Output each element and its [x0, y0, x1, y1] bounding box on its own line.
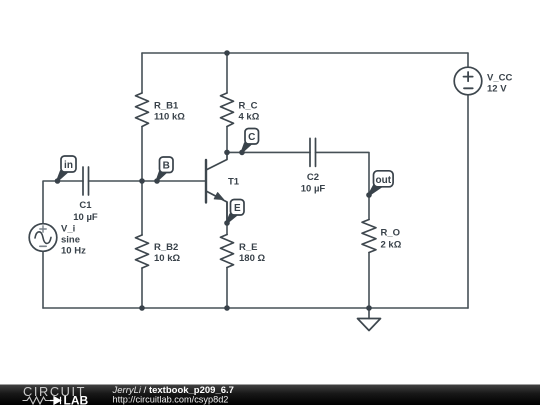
resistor R_B1 — [136, 93, 149, 127]
svg-text:R_B1: R_B1 — [154, 101, 179, 112]
source V_i — [29, 224, 57, 252]
transistor T1 — [206, 152, 227, 223]
resistor R_B2 — [136, 235, 149, 268]
svg-text:R_C: R_C — [239, 101, 258, 112]
svg-text:180 Ω: 180 Ω — [239, 253, 265, 264]
source V_CC — [454, 67, 482, 95]
node flag C — [241, 129, 259, 154]
svg-text:V_CC: V_CC — [487, 73, 512, 84]
svg-text:in: in — [64, 160, 73, 171]
wire R_B1 branch — [141, 53, 143, 181]
wire C2 to out corner — [316, 152, 370, 219]
capacitor C1 — [83, 167, 89, 195]
node flag in — [56, 156, 76, 182]
node flag B — [156, 157, 173, 182]
ground — [358, 308, 381, 331]
node flag out — [368, 171, 394, 197]
footer logo resistor squiggle — [23, 397, 51, 404]
svg-text:10 µF: 10 µF — [73, 212, 98, 223]
svg-text:V_i: V_i — [61, 224, 75, 235]
svg-text:10 Hz: 10 Hz — [61, 246, 86, 257]
svg-text:T1: T1 — [228, 177, 240, 188]
resistor R_C — [221, 93, 234, 127]
svg-text:12 V: 12 V — [487, 84, 507, 95]
svg-text:out: out — [376, 175, 392, 186]
node flag E — [226, 200, 244, 225]
svg-text:10 kΩ: 10 kΩ — [154, 253, 180, 264]
svg-text:2 kΩ: 2 kΩ — [381, 240, 402, 251]
wire emitter branch — [226, 202, 228, 308]
wire left branch lower — [42, 251, 44, 308]
wire bottom rail — [43, 307, 468, 309]
svg-text:sine: sine — [61, 235, 80, 246]
wire left branch upper — [43, 181, 83, 224]
wire C1 to base — [89, 180, 207, 182]
svg-text:4 kΩ: 4 kΩ — [239, 112, 260, 123]
svg-text:C1: C1 — [79, 200, 92, 211]
wire collector horizontal — [227, 151, 310, 153]
wire R_B2 branch — [141, 181, 143, 308]
svg-text:B: B — [163, 161, 170, 172]
resistor R_O — [362, 220, 376, 253]
svg-text:R_E: R_E — [239, 242, 257, 253]
svg-text:110 kΩ: 110 kΩ — [154, 112, 185, 123]
svg-text:LAB: LAB — [64, 394, 89, 405]
wire R_O to bottom — [368, 253, 370, 309]
resistor R_E — [221, 235, 234, 268]
wire V_CC bottom to bottom rail — [467, 95, 469, 309]
capacitor C2 — [310, 138, 316, 166]
svg-text:R_B2: R_B2 — [154, 242, 178, 253]
footer logo diode — [50, 397, 61, 404]
wire R_C branch — [226, 53, 228, 152]
svg-text:10 µF: 10 µF — [301, 184, 326, 195]
svg-text:R_O: R_O — [381, 228, 401, 239]
wire right rail to V_CC — [467, 53, 469, 68]
svg-text:C: C — [248, 132, 255, 143]
svg-text:E: E — [234, 203, 241, 214]
wire top rail — [142, 52, 468, 54]
svg-text:C2: C2 — [307, 172, 319, 183]
svg-text:http://circuitlab.com/csyp8d2: http://circuitlab.com/csyp8d2 — [113, 395, 229, 405]
